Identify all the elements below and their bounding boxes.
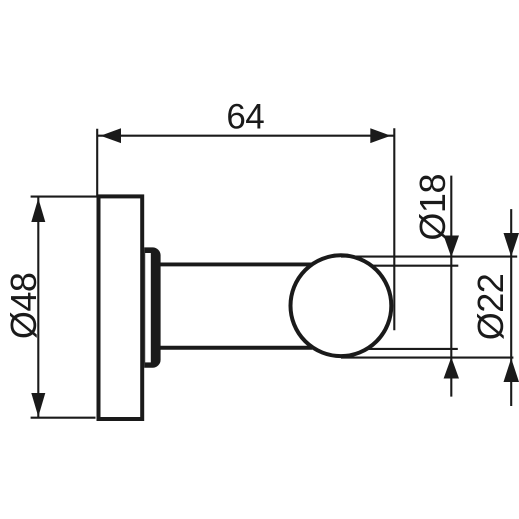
- extension line ball bottom: [341, 357, 513, 359]
- extension line tube bottom: [367, 348, 458, 350]
- arrow 64 right: [370, 128, 391, 143]
- extension line tube top: [372, 265, 458, 267]
- tube bottom line: [160, 346, 312, 350]
- extension line left (wall face): [96, 129, 98, 197]
- arrow Ø22 top: [504, 233, 519, 257]
- dimension line 64: [97, 135, 394, 137]
- wall plate: [99, 196, 143, 419]
- extension line Ø48 bottom: [31, 417, 96, 419]
- arrow 64 left: [101, 128, 122, 143]
- flange: [144, 247, 160, 367]
- dimension line Ø48: [37, 198, 39, 418]
- arrow Ø22 bottom: [504, 358, 519, 382]
- arrow Ø48 bottom: [31, 393, 45, 417]
- extension line Ø48 top: [31, 196, 97, 198]
- arrow Ø18 top: [444, 236, 459, 258]
- extension line right (ball right tangent): [393, 128, 395, 330]
- ball: [291, 255, 392, 356]
- svg-text:64: 64: [226, 98, 264, 137]
- dimension line Ø18: [450, 176, 452, 397]
- dimension line Ø22: [510, 209, 512, 406]
- svg-text:Ø48: Ø48: [3, 273, 44, 340]
- flange inner slit: [145, 253, 151, 362]
- svg-text:Ø18: Ø18: [412, 174, 453, 241]
- extension line ball top: [341, 256, 517, 258]
- tube top line: [160, 262, 312, 266]
- svg-text:Ø22: Ø22: [470, 274, 511, 341]
- arrow Ø48 top: [31, 198, 45, 222]
- arrow Ø18 bottom: [444, 357, 459, 378]
